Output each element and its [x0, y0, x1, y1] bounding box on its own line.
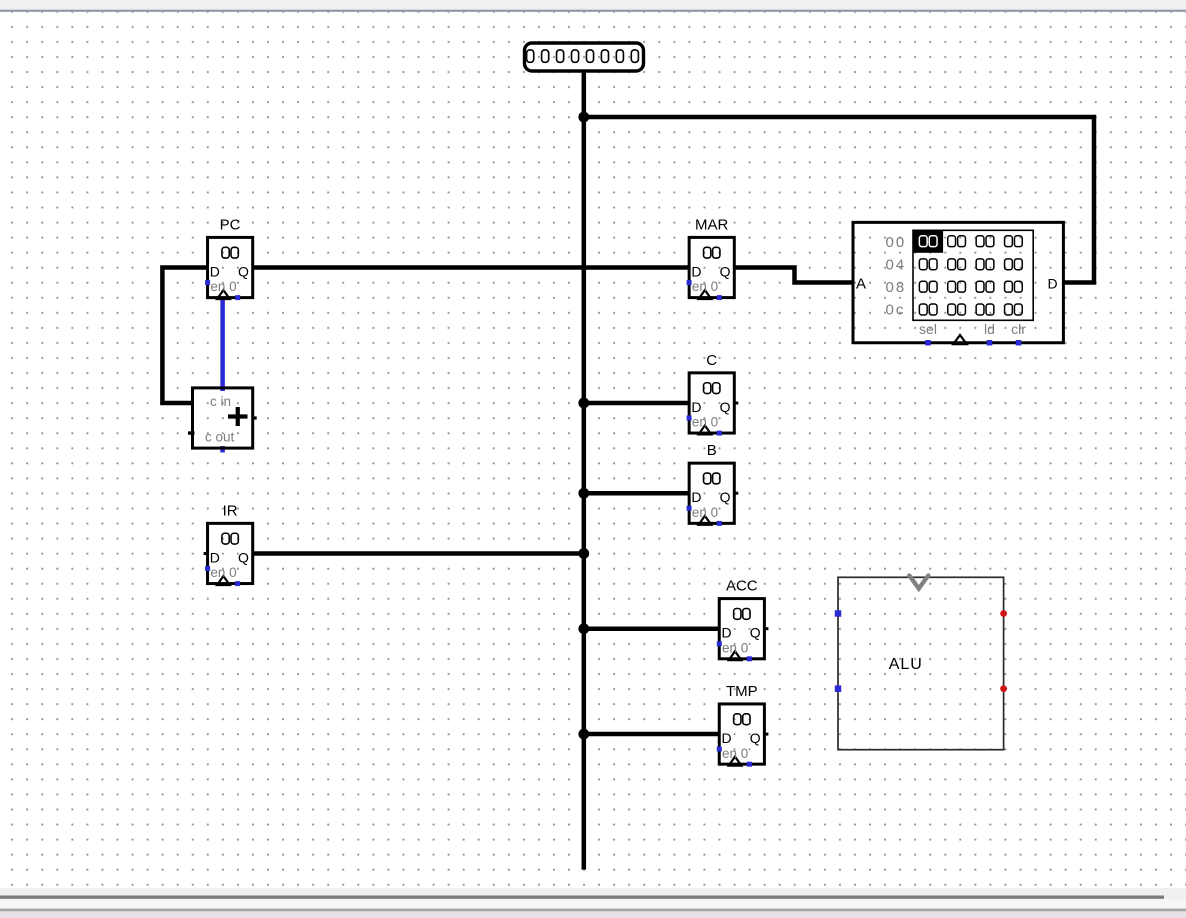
- wire: main vertical data bus: [582, 71, 587, 870]
- wire: blue selected wire PC clock to adder: [220, 298, 225, 391]
- svg-text:Q: Q: [238, 264, 249, 280]
- svg-text:IR: IR: [223, 502, 238, 519]
- svg-text:D: D: [1048, 276, 1058, 292]
- window bottom status/scrollbar strips: [0, 888, 1186, 918]
- svg-text:ALU: ALU: [889, 656, 923, 673]
- svg-text:en 0: en 0: [692, 279, 718, 294]
- svg-text:08: 08: [886, 279, 907, 296]
- memory RAM 16x8: [853, 222, 1063, 345]
- wire: bus to B register D: [584, 491, 689, 496]
- svg-text:D: D: [691, 399, 701, 415]
- svg-text:D: D: [691, 264, 701, 280]
- register B: [687, 442, 739, 526]
- junction bus / right loop: [578, 112, 589, 123]
- svg-text:Q: Q: [750, 625, 761, 641]
- junction bus / IR wire: [578, 548, 589, 559]
- wire: IR Q to bus: [253, 551, 584, 556]
- register C: [687, 352, 739, 436]
- wire: MAR Q to RAM A: [734, 268, 853, 283]
- wire: bus to TMP register D: [584, 732, 719, 737]
- svg-text:Q: Q: [750, 730, 761, 746]
- register ACC: [717, 578, 769, 662]
- window top toolbar strip: [0, 0, 1186, 12]
- svg-text:Q: Q: [720, 399, 731, 415]
- output probe (8-bit bus display 00000000): [525, 43, 644, 71]
- svg-text:Q: Q: [720, 489, 731, 505]
- register PC: [205, 216, 253, 300]
- ALU subcircuit block: [835, 576, 1007, 750]
- svg-text:ACC: ACC: [726, 578, 758, 595]
- svg-text:0c: 0c: [886, 301, 906, 318]
- svg-text:en 0: en 0: [722, 746, 748, 761]
- svg-text:MAR: MAR: [695, 216, 729, 233]
- svg-text:A: A: [856, 276, 866, 293]
- svg-text:sel: sel: [919, 321, 937, 337]
- wire: bus to C register D: [584, 401, 689, 406]
- register MAR: [687, 216, 735, 300]
- svg-text:D: D: [210, 550, 220, 566]
- svg-text:c out: c out: [205, 430, 235, 445]
- svg-text:D: D: [722, 730, 732, 746]
- svg-text:D: D: [722, 625, 732, 641]
- svg-text:C: C: [706, 352, 717, 369]
- svg-text:en 0: en 0: [210, 565, 236, 580]
- svg-text:ld: ld: [984, 321, 995, 337]
- register TMP: [717, 683, 769, 767]
- svg-text:en 0: en 0: [692, 415, 718, 430]
- svg-text:04: 04: [886, 256, 907, 273]
- svg-text:en 0: en 0: [210, 279, 236, 294]
- adder (program counter incrementer): [188, 388, 257, 448]
- svg-text:en 0: en 0: [692, 505, 718, 520]
- junction bus / TMP wire: [578, 729, 589, 740]
- svg-text:00: 00: [886, 234, 907, 251]
- svg-text:clr: clr: [1011, 321, 1026, 337]
- junction bus / B wire: [578, 488, 589, 499]
- svg-text:B: B: [707, 442, 717, 459]
- junction bus / C wire: [578, 398, 589, 409]
- svg-text:D: D: [691, 489, 701, 505]
- wire: PC Q to MAR D: [253, 265, 689, 270]
- wire: bus to RAM D (top right loop): [584, 117, 1094, 283]
- svg-text:en 0: en 0: [722, 640, 748, 655]
- svg-text:Q: Q: [720, 264, 731, 280]
- junction bus / ACC wire: [578, 623, 589, 634]
- svg-text:TMP: TMP: [726, 683, 758, 700]
- svg-text:Q: Q: [238, 550, 249, 566]
- wire: PC D feedback loop to adder: [162, 268, 207, 403]
- register IR: [204, 502, 253, 586]
- svg-text:D: D: [210, 264, 220, 280]
- svg-text:c in: c in: [210, 394, 231, 409]
- wire: blue stub at adder sum output: [220, 446, 225, 453]
- svg-text:PC: PC: [220, 216, 241, 233]
- wire: bus to ACC register D: [584, 626, 719, 631]
